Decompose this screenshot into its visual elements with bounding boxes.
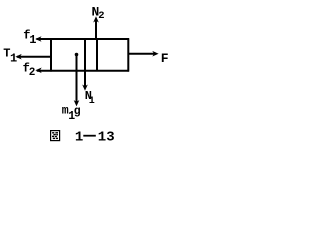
wire: box right edge <box>127 38 129 71</box>
wire: inner vertical line left <box>84 39 86 71</box>
arrowhead F (right) <box>152 51 158 57</box>
force N2 arrow line <box>95 19 97 40</box>
caption text: 1 - 13 <box>75 130 115 146</box>
svg-text:g: g <box>74 105 81 118</box>
svg-text:1: 1 <box>75 130 83 146</box>
wire: box top edge with f1 tail <box>37 38 130 40</box>
arrowhead N2 (up) <box>93 16 99 22</box>
force m1g arrow line <box>76 55 78 105</box>
force T1 arrow line <box>17 56 51 58</box>
arrowhead T1 (left) <box>15 54 21 60</box>
arrowhead N1 (down) <box>82 85 88 91</box>
svg-text:F: F <box>161 51 169 66</box>
force N1 arrow line <box>84 71 86 89</box>
svg-text:13: 13 <box>98 130 115 146</box>
svg-text:2: 2 <box>29 67 36 79</box>
wire: box left edge <box>50 38 52 71</box>
wire: inner vertical line right <box>96 39 98 71</box>
node: center of mass dot <box>75 53 79 57</box>
arrowhead f2 (left) <box>35 68 41 74</box>
wire: box bottom edge with f2 tail <box>37 70 129 72</box>
arrowhead f1 (left) <box>35 36 41 42</box>
caption glyph: Chinese character TU (figure) drawn as strokes <box>51 131 60 141</box>
svg-text:1: 1 <box>89 96 95 107</box>
svg-text:1: 1 <box>29 33 36 47</box>
arrowhead m1g (down) <box>74 100 80 106</box>
force F arrow line <box>128 53 156 55</box>
caption dash <box>83 135 96 137</box>
svg-text:2: 2 <box>98 10 104 22</box>
svg-text:1: 1 <box>10 52 17 66</box>
